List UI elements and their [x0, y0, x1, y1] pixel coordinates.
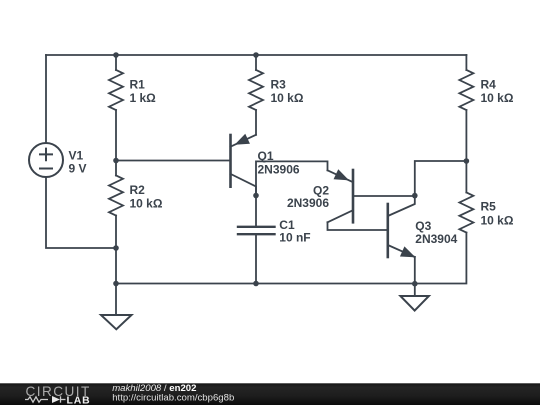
svg-text:Q3: Q3	[415, 219, 431, 233]
svg-text:C1: C1	[279, 218, 295, 232]
svg-text:R5: R5	[481, 200, 497, 214]
svg-text:10 kΩ: 10 kΩ	[481, 214, 514, 228]
svg-text:V1: V1	[69, 148, 84, 162]
svg-text:Q1: Q1	[258, 149, 274, 163]
svg-text:2N3906: 2N3906	[258, 163, 300, 177]
svg-text:R3: R3	[271, 77, 287, 91]
svg-text:10 nF: 10 nF	[279, 231, 310, 245]
svg-text:R2: R2	[130, 183, 146, 197]
svg-text:10 kΩ: 10 kΩ	[481, 91, 514, 105]
svg-text:1 kΩ: 1 kΩ	[130, 91, 157, 105]
svg-text:2N3904: 2N3904	[415, 232, 457, 246]
svg-text:2N3906: 2N3906	[287, 196, 329, 210]
svg-text:LAB: LAB	[67, 396, 91, 405]
svg-text:10 kΩ: 10 kΩ	[271, 91, 304, 105]
svg-text:http://circuitlab.com/cbp6g8b: http://circuitlab.com/cbp6g8b	[112, 392, 234, 403]
svg-text:R1: R1	[130, 77, 146, 91]
svg-text:R4: R4	[481, 78, 497, 92]
svg-text:10 kΩ: 10 kΩ	[130, 197, 163, 211]
svg-text:9 V: 9 V	[69, 162, 87, 176]
